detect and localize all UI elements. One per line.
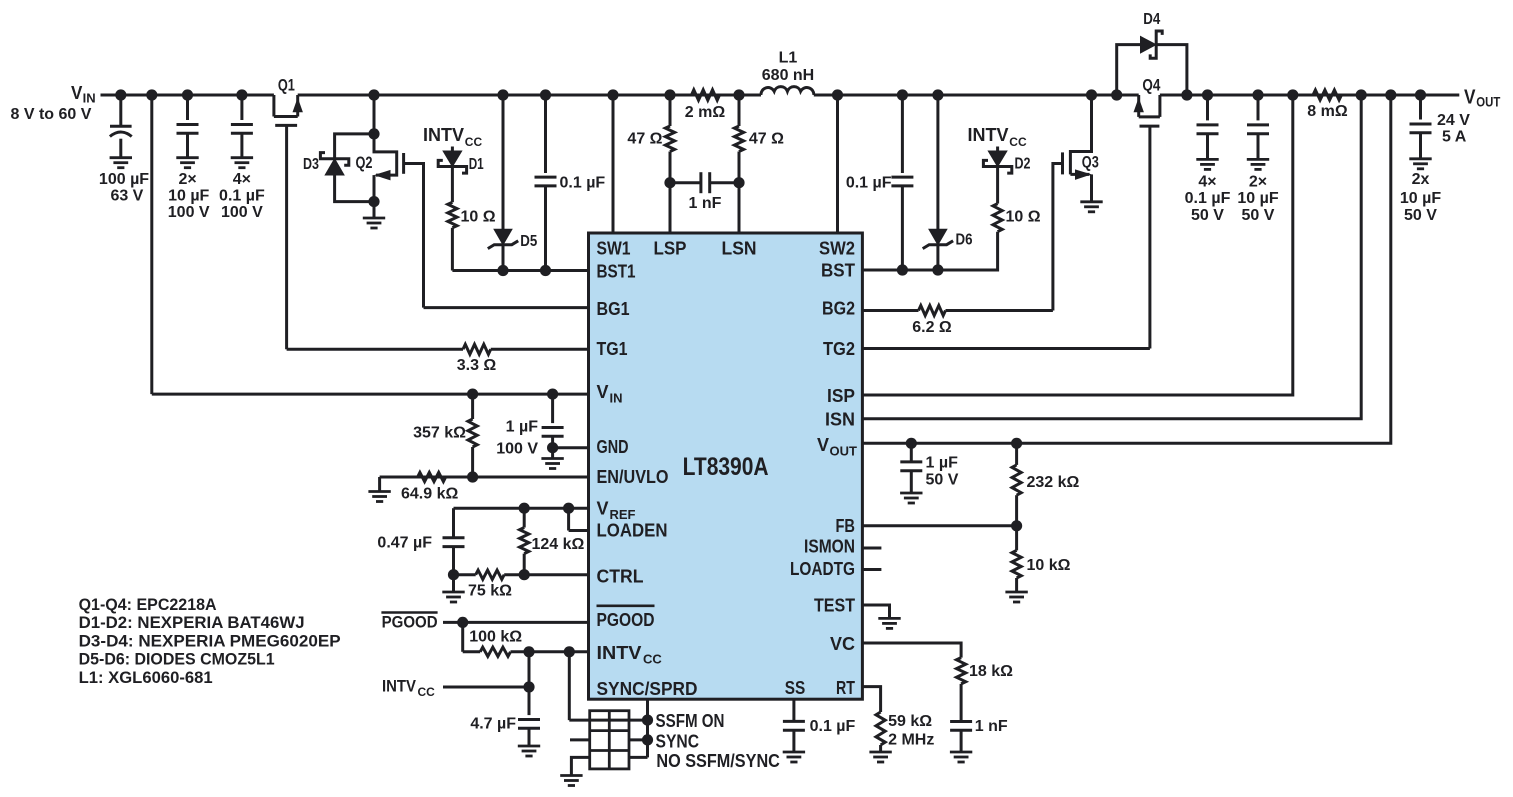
svg-text:10 µF: 10 µF [168,187,209,204]
wire Q1 source node down to D3/Q2 [373,95,376,134]
ground under 4.7uF [518,745,540,748]
junction dots rail right-mid [897,89,908,100]
wire SYNC row stub left [570,738,590,741]
wire rail to D6 [936,95,939,229]
junction dots rail mid-left [368,89,379,100]
wire LSP vertical lower [669,152,672,234]
wire D5 to BST1 wire [502,244,505,270]
svg-text:PGOOD: PGOOD [597,610,655,630]
wire 1nF left [670,181,701,184]
svg-text:SS: SS [785,678,806,698]
capacitor C-in2 2x10uF [186,95,189,120]
transistor Q4 GaN FET [1137,95,1140,117]
junction dots input rail [115,89,126,100]
capacitor 1uF 100V [551,394,554,423]
ground under 10k [1005,591,1027,594]
svg-text:100 V: 100 V [168,204,210,221]
junction dots BST1 wire [497,265,508,276]
wire GND to ground [551,448,554,459]
svg-text:10 Ω: 10 Ω [1006,209,1041,226]
svg-text:100 kΩ: 100 kΩ [469,629,522,646]
wire SYNC/SPRD bottom [646,699,649,757]
wire VREF [454,507,589,510]
svg-text:Q4: Q4 [1142,76,1160,95]
wire INTVCC pin left segment [463,650,481,653]
svg-text:357 kΩ: 357 kΩ [413,425,466,442]
junction dot GND [547,442,558,453]
ground under Q2 [363,217,385,220]
wire CTRL ground stub [452,575,455,592]
svg-text:D3: D3 [303,156,319,173]
wire ISMON stub [862,547,881,550]
svg-text:75 kΩ: 75 kΩ [468,583,512,600]
svg-text:D3-D4: NEXPERIA PMEG6020EP: D3-D4: NEXPERIA PMEG6020EP [79,632,341,650]
junction dot PGOOD [457,617,468,628]
svg-text:8 V to 60 V: 8 V to 60 V [11,106,92,123]
svg-text:Q2: Q2 [356,153,373,172]
svg-text:0.1 µF: 0.1 µF [846,175,892,192]
wire NO-SSFM row right [629,756,648,759]
svg-text:V: V [1464,87,1476,109]
diode D6 zener [929,229,947,244]
svg-text:VC: VC [830,634,855,654]
wire BG2 left segment [862,309,918,312]
junction dots VOUT wire [906,438,917,449]
wire 0.1uF to BST1 wire [544,186,547,271]
diode D4 schottky [1141,37,1157,53]
svg-text:50 V: 50 V [926,472,959,489]
svg-text:EN/UVLO: EN/UVLO [597,467,669,487]
svg-text:IN: IN [610,391,623,406]
ground at EN divider [368,490,390,493]
svg-text:50 V: 50 V [1404,207,1437,224]
wire D2 to 10ohm right [996,167,999,204]
svg-text:5 A: 5 A [1442,129,1467,146]
resistor 75k [476,570,505,579]
junction dots Q4/D4 [1111,89,1122,100]
svg-text:0.1 µF: 0.1 µF [219,187,265,204]
ground at 0.47uF [442,591,464,594]
transistor Q2 GaN FET [374,134,397,175]
wire D6 to BST wire [936,244,939,270]
svg-text:2x: 2x [1412,171,1430,188]
wire D4 bypass right [1155,45,1187,95]
svg-text:4.7 µF: 4.7 µF [470,716,516,733]
svg-text:SSFM ON: SSFM ON [656,711,725,731]
svg-text:LOADEN: LOADEN [597,520,668,540]
svg-text:BG1: BG1 [597,299,630,319]
svg-text:10 kΩ: 10 kΩ [1027,557,1071,574]
svg-text:GND: GND [597,437,629,457]
svg-text:4×: 4× [1198,173,1216,190]
wire INTVCC node to jumper [568,652,571,720]
capacitor 2x10uF output [1419,95,1422,120]
svg-text:1 nF: 1 nF [689,195,722,212]
ground under SS cap [783,751,805,754]
svg-text:D4: D4 [1143,11,1160,28]
op-amp U1 LT8390A IC body [589,233,863,699]
wire PGOOD to 100k [461,622,464,651]
svg-text:18 kΩ: 18 kΩ [969,663,1013,680]
svg-text:D5-D6: DIODES CMOZ5L1: D5-D6: DIODES CMOZ5L1 [79,651,275,669]
wire top rail L1 to Q4 [814,94,1139,97]
wire rail to 0.1uF right [901,95,904,173]
wire SW2 to rail [836,95,839,233]
wire NO-SSFM row left to ground [571,757,589,775]
svg-text:TEST: TEST [814,596,855,616]
capacitor 4.7uF [528,652,531,715]
wire TG1 left segment [287,348,463,351]
svg-text:59 kΩ: 59 kΩ [888,713,932,730]
resistor 357k [471,394,474,419]
wire to D3 [335,134,374,159]
wire INTVCC label to 4.7uF [443,686,529,689]
resistor 10k [1015,526,1018,551]
capacitor 2× 10 µF 50V [1257,95,1260,120]
wire TG2 [862,347,1150,350]
wire rail to 0.1uF left [544,95,547,173]
svg-text:10 µF: 10 µF [1237,190,1278,207]
wire LSN vertical upper [738,95,741,126]
capacitor C-in 100uF electrolytic symbol [119,95,122,127]
svg-text:PGOOD: PGOOD [382,613,438,632]
wire TEST stub [862,605,889,618]
svg-text:0.1 µF: 0.1 µF [1185,190,1231,207]
capacitor C-in3 4x0.1uF [240,95,243,120]
capacitor 1nF LSP-LSN [699,172,702,193]
wire RT [862,687,880,712]
junction dot EN/UVLO [467,471,478,482]
junction dots CTRL wire [519,569,530,580]
ground under 1nF [950,751,972,754]
svg-text:2×: 2× [178,171,196,188]
capacitor 4× 0.1 µF 50V [1206,95,1209,120]
ground under 2x10uF [176,156,198,159]
resistor 59k [876,712,885,745]
svg-text:50 V: 50 V [1242,207,1275,224]
resistor 3.3ohm [463,344,491,354]
svg-text:24 V: 24 V [1437,112,1470,129]
svg-text:D1-D2: NEXPERIA BAT46WJ: D1-D2: NEXPERIA BAT46WJ [79,614,305,632]
ground at jumper [560,774,582,777]
wire BG2 right segment [946,309,1053,312]
resistor 2mohm sense [692,90,720,100]
wire BST1 [452,269,588,272]
svg-text:3.3 Ω: 3.3 Ω [457,357,497,374]
wire ISP [862,95,1292,395]
wire stub to ground [373,202,376,218]
svg-text:LSP: LSP [654,239,687,259]
wire VIN pin [152,393,589,396]
capacitor 1nF VC [960,684,963,722]
resistor 10ohm right [993,204,1002,232]
junction dots BST wire [897,264,908,275]
svg-text:V: V [817,435,829,455]
svg-text:47 Ω: 47 Ω [627,131,662,148]
svg-text:124 kΩ: 124 kΩ [532,536,585,553]
ground at TEST [878,617,900,620]
junction dots INTVCC wire [523,646,534,657]
svg-text:INTV: INTV [382,677,417,696]
svg-text:4×: 4× [233,171,251,188]
svg-text:LOADTG: LOADTG [790,559,855,579]
wire VOUT pin [862,95,1390,443]
svg-text:1 nF: 1 nF [975,718,1008,735]
capacitor 0.1uF BST2 [891,176,913,179]
svg-text:ISP: ISP [827,386,855,406]
svg-text:Q1-Q4: EPC2218A: Q1-Q4: EPC2218A [79,596,217,614]
junction dot FB [1011,520,1022,531]
svg-text:Q1: Q1 [278,76,295,95]
svg-text:2 mΩ: 2 mΩ [685,104,726,121]
svg-text:TG1: TG1 [597,339,628,359]
ground under 1uF 50V [900,492,922,495]
svg-text:OUT: OUT [830,444,858,459]
svg-text:D5: D5 [520,233,537,250]
svg-text:NO SSFM/SYNC: NO SSFM/SYNC [656,751,780,771]
resistor 18k [957,658,966,684]
transistor Q3 GaN FET [1070,95,1091,174]
wire EN/UVLO [380,476,589,479]
junction dots VIN wire [467,389,478,400]
svg-text:6.2 Ω: 6.2 Ω [912,319,952,336]
junction dots VREF wire [519,503,530,514]
svg-text:CC: CC [418,685,436,699]
resistor 232k [1015,443,1018,465]
inductor L1 [761,87,814,95]
wire ISN [862,95,1361,419]
wire GND pin [553,446,589,449]
svg-text:0.1 µF: 0.1 µF [810,718,856,735]
wire TG1 right segment [491,348,589,351]
wire rail to D5 [502,95,505,229]
wire top rail Q4 to VOUT [1160,94,1459,97]
wire SSFM ON row [569,719,647,722]
svg-text:Q3: Q3 [1082,152,1099,171]
svg-text:SW1: SW1 [597,239,631,259]
svg-text:63 V: 63 V [110,187,143,204]
wire LSN vertical lower [738,152,741,234]
wire VIN rail drop [150,95,153,394]
svg-text:RT: RT [836,678,855,698]
capacitor 1uF 50V [910,443,913,462]
svg-text:10 Ω: 10 Ω [461,209,496,226]
connector jumper block 3x2 [590,711,629,769]
junction dots ISP ISN [1287,89,1298,100]
resistor 47ohm right [734,126,743,152]
svg-text:L1: XGL6060-681: L1: XGL6060-681 [79,669,213,687]
svg-text:50 V: 50 V [1191,207,1224,224]
wire D3 anode down [335,175,374,202]
ground at GND pin [541,457,563,460]
svg-text:INTV: INTV [423,125,464,145]
svg-text:CC: CC [465,135,483,149]
diode D3 schottky [325,159,344,175]
svg-text:ISN: ISN [825,410,855,430]
wire 1nF right [710,181,739,184]
diode D5 zener [494,229,512,244]
svg-text:10 µF: 10 µF [1400,190,1441,207]
wire D1 to R 10ohm [451,167,454,203]
wire 10ohm right to BST wire [862,232,997,270]
junction dots LSP LSN SW2 [664,89,675,100]
wire LOADTG stub [862,568,881,571]
svg-text:TG2: TG2 [823,339,855,359]
svg-text:INTV: INTV [968,125,1009,145]
wire CTRL [454,573,476,576]
ground under 4x0.1uF [231,156,253,159]
wire Q2 source to gnd [373,175,376,202]
wire LSP vertical upper [669,95,672,126]
svg-text:47 Ω: 47 Ω [749,131,784,148]
capacitor 0.1uF SS [792,699,795,721]
svg-text:D2: D2 [1015,156,1031,173]
wire VC [862,643,961,658]
svg-text:100 V: 100 V [221,204,263,221]
svg-text:SYNC/SPRD: SYNC/SPRD [597,679,698,699]
junction dot Q2 source [368,196,379,207]
svg-text:0.1 µF: 0.1 µF [560,175,606,192]
svg-text:100 V: 100 V [496,441,538,458]
junction dots 1nF [664,177,675,188]
junction dot 4.7uF [523,681,534,692]
svg-text:FB: FB [836,516,856,536]
svg-text:0.47 µF: 0.47 µF [377,535,432,552]
ground under Q3 [1080,200,1102,203]
svg-text:100 µF: 100 µF [99,171,149,188]
wire 0.1uF right to BST wire [901,186,904,270]
resistor 124k [523,508,526,527]
svg-text:1 µF: 1 µF [506,419,539,436]
capacitor 0.47uF [452,508,455,538]
wire EN ground stub [378,477,381,492]
svg-text:2×: 2× [1249,173,1267,190]
diode D1 schottky with INTVcc feed [451,147,454,152]
resistor 64.9k [418,472,446,481]
svg-text:BST: BST [821,261,855,281]
wire SYNC row right [629,738,648,741]
svg-text:BST1: BST1 [597,261,636,281]
wire top rail Q1 drain to L1 [298,94,761,97]
wire INTVCC pin right segment [511,650,589,653]
svg-text:BG2: BG2 [822,299,855,319]
ground under 59k [869,751,891,754]
svg-text:V: V [597,382,609,402]
resistor 47ohm left [665,126,674,152]
wire SW1 to rail [612,95,615,233]
wire 59k to ground [879,745,882,752]
junction dots jumper [642,715,653,726]
wire FB [862,524,1016,527]
resistor 6.2ohm [919,306,946,316]
svg-text:1 µF: 1 µF [926,455,959,472]
svg-text:LT8390A: LT8390A [683,453,769,481]
transistor Q1 GaN FET [272,95,275,117]
wire BST right [862,269,902,272]
svg-text:L1: L1 [779,50,798,67]
svg-text:2 MHz: 2 MHz [888,732,934,749]
svg-text:CC: CC [643,652,662,667]
junction dots output bank [1202,89,1213,100]
svg-text:SW2: SW2 [819,239,855,259]
resistor 10ohm left [448,202,457,228]
svg-text:8 mΩ: 8 mΩ [1307,103,1348,120]
svg-text:V: V [597,499,609,519]
svg-text:LSN: LSN [722,239,757,259]
wire 10ohm to BST1 rail [451,228,454,271]
svg-text:D1: D1 [469,156,484,173]
resistor 100k [480,647,510,656]
wire BG1 [424,306,589,309]
svg-text:OUT: OUT [1476,94,1500,110]
svg-text:CTRL: CTRL [597,566,644,586]
svg-text:ISMON: ISMON [804,537,855,557]
ground under 100uF [110,156,132,159]
wire LOADEN [569,529,589,532]
svg-text:INTV: INTV [597,643,642,663]
svg-text:D6: D6 [956,232,973,249]
wire D4 bypass left [1117,45,1141,95]
wire PGOOD [443,621,589,624]
diode D2 schottky [996,147,999,152]
svg-text:680 nH: 680 nH [762,67,814,84]
svg-text:V: V [71,83,82,103]
junction dot D3/Q2 top [368,128,379,139]
svg-text:CC: CC [1009,135,1027,149]
svg-text:IN: IN [83,91,96,106]
svg-text:232 kΩ: 232 kΩ [1027,474,1080,491]
svg-text:64.9 kΩ: 64.9 kΩ [401,486,458,503]
resistor 8mohm sense [1313,90,1342,100]
svg-text:SYNC: SYNC [656,731,700,751]
node VIN net: top input rail wire [101,94,274,97]
capacitor 0.1uF BST1 [535,176,557,179]
